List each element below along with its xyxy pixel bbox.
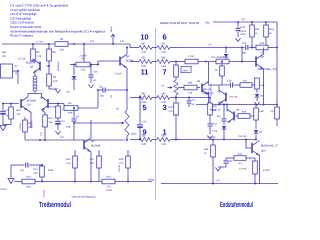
input connector X3 [1,51,20,84]
wire mid net [25,136,128,141]
diode D3 [229,94,264,101]
transistor Q8 BDY58 [256,48,278,72]
right +V rail [213,18,277,23]
resistor R22 [215,61,224,86]
resistor R23 [256,42,277,55]
wire Q8 branch [241,48,243,62]
resistor R41 [234,152,246,165]
svg-text:11: 11 [141,68,149,77]
svg-text:13mA: 13mA [263,169,270,172]
note optionale [72,195,97,198]
svg-text:BC557B: BC557B [26,62,36,65]
svg-text:777: 777 [216,180,221,183]
svg-text:Masse: Masse [43,189,46,197]
svg-text:BC546B: BC546B [91,145,101,148]
svg-text:1N4148: 1N4148 [229,96,238,99]
wire net4 right [180,139,256,141]
svg-text:7,0mA: 7,0mA [114,73,122,76]
svg-text:0.05: 0.05 [141,51,146,54]
svg-text:50µ: 50µ [66,91,71,94]
svg-text:3,2k: 3,2k [81,69,86,72]
svg-text:Modell 1N4148 AKO: 1N4148: Modell 1N4148 AKO: 1N4148 [160,21,199,25]
node 9 [142,128,146,137]
diff pair emitters [28,110,34,128]
wire verticals [0,0,1,1]
svg-text:2,2k: 2,2k [188,92,193,95]
svg-text:575: 575 [120,40,125,43]
resistor R19 [118,150,130,182]
svg-text:620n: 620n [241,33,247,36]
capacitor C7 [0,104,9,125]
svg-text:0,7mA: 0,7mA [37,40,44,43]
resistor R24 [185,55,216,68]
wire Q3 base [0,0,1,1]
resistor R15 [66,150,77,182]
transistor Q10 BDW46 [252,141,279,156]
net wire 11-7 with 0.05 ohm resistors [130,56,180,68]
svg-text:BC550: BC550 [126,60,134,63]
right edge rail [276,22,278,106]
svg-text:Vcc: Vcc [205,21,210,25]
wire diff base right [48,103,64,109]
net wire 10-6 with 0.05 ohm resistors [130,42,180,54]
svg-text:C30: C30 [228,160,233,163]
ground [235,38,240,41]
svg-text:4,3mA: 4,3mA [239,30,247,33]
capacitor C15 [131,97,147,141]
ground [215,168,220,171]
capacitor C16 [242,42,256,55]
capacitor C10 [89,64,99,84]
net flag Vneg [148,178,154,181]
resistor R40 [174,62,191,81]
svg-text:Treibermodul: Treibermodul [39,200,71,209]
svg-text:6: 6 [162,33,166,42]
capacitor C30 [218,158,233,167]
svg-text:R23: R23 [260,42,265,45]
net label Endstufe [57,61,60,71]
resistor R6 [70,54,98,71]
net label 111 [110,94,113,98]
diode D1 [66,64,76,94]
svg-text:C19: C19 [227,80,232,83]
svg-text:587: 587 [141,42,146,45]
current label 4,7mA [18,58,26,61]
resistor R32 [264,22,275,49]
svg-text:68n Q7: 68n Q7 [203,88,212,91]
svg-text:C31: C31 [213,123,218,126]
node 7 [162,68,166,77]
module separator line [155,28,157,200]
svg-text:R26: R26 [242,110,247,113]
transistor Q6 BD139 [197,62,213,105]
squiggle emitter wire [33,76,37,94]
resistor R26 [234,110,257,118]
svg-text:Endstufenmodul: Endstufenmodul [220,200,253,209]
svg-text:270: 270 [119,162,124,165]
svg-text:0.05: 0.05 [141,143,146,146]
svg-text:0.05: 0.05 [161,143,166,146]
diode D4 [207,126,226,141]
wire net3 right [180,97,210,99]
resistor R35 zobel [208,97,218,124]
svg-text:100: 100 [90,162,95,165]
resistor R2 [31,44,42,62]
wire Q10 base [246,140,252,149]
svg-text:1 mA: 1 mA [188,55,194,58]
net label 777 [40,131,43,136]
capacitor C31 [208,123,218,135]
node 6 [162,33,166,42]
diode D5 [238,130,263,141]
current 13mA [263,169,270,172]
svg-text:Endstufe: Endstufe [57,61,60,71]
svg-text:0,1µ: 0,1µ [213,130,218,133]
resistor R18 [102,175,115,192]
svg-text:10: 10 [140,33,148,42]
ground [254,102,259,105]
transistor Q9 BC547 [210,109,240,123]
right bottom rail [161,180,278,184]
svg-text:1mA: 1mA [48,169,54,172]
svg-text:4,7mA: 4,7mA [18,58,26,61]
svg-text:3: 3 [162,103,166,112]
svg-text:777: 777 [40,131,43,136]
net flag Vneg diamond [0,179,14,192]
svg-text:R21: R21 [243,80,248,83]
resistor R34 [255,78,260,93]
svg-text:Q10: Q10 [261,150,266,153]
model note [160,21,199,25]
ground [0,126,6,131]
svg-text:R17: R17 [90,158,95,161]
wire Q10 emitter [258,155,261,184]
svg-text:Vneg: Vneg [148,178,154,181]
svg-text:BC546B: BC546B [27,100,37,103]
wire net2 right [175,61,185,63]
transistor Q1 BC546B [21,97,36,110]
wire q7 [218,85,220,106]
resistor R10 [3,104,22,125]
svg-text:9: 9 [142,128,146,137]
svg-text:R15: R15 [66,158,71,161]
svg-text:6,8p: 6,8p [66,126,71,129]
svg-text:R18: R18 [106,175,111,178]
wire out bus [196,104,277,106]
wire net 147 [0,0,1,1]
caption Treibermodul [39,200,71,209]
svg-text:737: 737 [208,44,213,47]
svg-text:BDW46_T: BDW46_T [261,145,279,148]
resistor R1 [19,117,33,140]
resistor R30 [178,81,200,94]
svg-text:1: 1 [162,128,166,137]
svg-text:R41: R41 [238,152,243,155]
capacitor C4 [55,120,65,130]
ground [88,85,93,88]
capacitor C8 [99,85,128,97]
svg-text:C16: C16 [242,42,247,45]
svg-text:470: 470 [169,110,174,113]
svg-text:747: 747 [241,18,246,21]
transistor Q2 BC546B [40,97,59,111]
svg-text:7: 7 [162,68,166,77]
svg-text:0.05: 0.05 [161,51,166,54]
wire net1 right [180,47,245,49]
svg-text:R16: R16 [26,175,31,178]
svg-text:552: 552 [141,92,146,95]
svg-text:5: 5 [142,103,146,112]
svg-text:R14: R14 [34,168,39,171]
svg-text:220: 220 [34,172,39,175]
svg-text:1,8k: 1,8k [259,110,264,113]
potentiometer X2 [116,90,129,140]
svg-text:2,0mA: 2,0mA [79,54,87,57]
node 11 [141,68,149,77]
resistor R28 [204,140,215,185]
resistor R21 [240,80,265,88]
svg-text:R11: R11 [49,117,54,120]
wire Q10 collector [0,0,1,1]
net flag Vpre [110,26,115,44]
svg-text:R25: R25 [220,56,225,59]
svg-text:Cma: Cma [269,28,275,31]
svg-text:046: 046 [161,92,166,95]
bottom rail [42,181,152,183]
current label 0,7mA [37,40,44,43]
svg-text:4,5mA: 4,5mA [239,168,247,171]
svg-text:R31: R31 [255,28,260,31]
svg-text:500µ: 500µ [131,133,137,136]
wire Q8 emitter [263,69,265,106]
net label Masse [43,189,46,197]
svg-text:3,3k: 3,3k [260,84,265,87]
svg-text:C17: C17 [192,99,197,102]
diode D2 [211,48,228,63]
capacitor C21 [217,105,227,126]
svg-text:2,4mA: 2,4mA [118,165,121,172]
svg-text:1N4148: 1N4148 [207,136,216,139]
svg-text:R10: R10 [17,109,22,112]
wire Q4 base [97,61,120,66]
svg-text:1N4148: 1N4148 [238,135,247,138]
resistor R36 [239,158,257,185]
resistor R14 [34,164,54,183]
resistor R39 [169,103,179,140]
wire L-drop [0,0,1,1]
left +V rail [2,40,130,48]
svg-text:R19: R19 [119,158,124,161]
wire bottom left [11,164,42,166]
capacitor C17 [187,98,197,108]
node 1 [162,128,166,137]
svg-text:R30: R30 [188,81,193,84]
svg-text:47µ: 47µ [20,169,25,172]
svg-text:100k: 100k [67,112,73,115]
capacitor C6 [20,163,28,172]
wire C8 net [98,89,103,91]
resistor R3 [47,44,57,67]
svg-text:BC557-25: BC557-25 [203,92,214,95]
svg-text:7,0mA: 7,0mA [105,189,113,192]
svg-text:580: 580 [161,56,166,59]
svg-text:41µ: 41µ [217,115,222,118]
resistor R27 [254,105,265,130]
resistor R31 [239,22,260,49]
wire Q3 [90,120,93,182]
resistor R38 [270,105,279,127]
svg-text:574: 574 [90,40,95,43]
resistor R17 [90,150,101,182]
svg-text:1N4148: 1N4148 [211,56,220,59]
svg-text:2,2k: 2,2k [37,55,42,58]
svg-text:0,9mA: 0,9mA [0,188,7,191]
svg-text:56Ω: 56Ω [26,186,31,189]
svg-text:BDY58_Tu: BDY58_Tu [258,68,278,71]
net wire 5-3 with 0.05 ohm resistors [130,92,180,104]
svg-text:R39: R39 [169,106,174,109]
resistor R4 [47,66,59,89]
wire [0,0,1,1]
svg-text:BC547-25: BC547-25 [210,109,221,112]
svg-text:2,2k: 2,2k [66,162,71,165]
diff pair top [28,94,42,98]
wire y158 [226,157,255,159]
wire rail to R6 [83,44,85,65]
ground [55,131,60,134]
wire [10,165,12,178]
svg-text:103: 103 [2,55,7,58]
net wire 9-1 with 0.05 ohm resistors [130,134,180,146]
svg-text:68p: 68p [242,51,247,54]
svg-text:052: 052 [141,56,146,59]
svg-text:0,0mA: 0,0mA [19,123,22,130]
node 5 [142,103,146,112]
capacitor C19 [227,80,240,88]
capacitor C34 [236,22,247,37]
svg-text:Vpre: Vpre [110,26,113,32]
diff pair apex [0,0,1,1]
resistor R25 [216,56,256,64]
resistor R12 [56,104,67,121]
resistor R5 [55,38,68,52]
wire q9 [226,104,228,112]
transistor Q5 BC557B [26,59,40,76]
svg-text:C34: C34 [241,26,246,29]
svg-text:R28: R28 [204,148,209,151]
resistor R9 [64,102,98,115]
node 3 [162,103,166,112]
svg-text:001: 001 [161,42,166,45]
svg-text:C10: C10 [93,71,98,74]
notes text block [10,4,105,38]
svg-text:C15: C15 [142,121,147,124]
caption Endstufenmodul [220,200,253,209]
svg-text:2mA: 2mA [183,69,188,72]
transistor Q3 BC546B [84,139,101,152]
svg-text:56p: 56p [100,95,105,98]
wire diff base left [2,103,19,105]
capacitor C9 [66,107,80,140]
transistor Q4 BC550B [114,47,134,91]
resistor R16 [15,175,43,188]
net label 737 [208,44,213,47]
svg-text:101: 101 [60,136,65,139]
svg-text:8,2k: 8,2k [53,80,58,83]
svg-text:3,3k: 3,3k [59,49,64,52]
svg-text:optionale pinbelegung b: optionale pinbelegung b [72,195,97,198]
wire feedback to X2 wiper [73,122,120,124]
ground [207,136,212,139]
wire vert 98 [97,89,99,108]
transistor Q7 BC557 [203,88,226,104]
ground [55,90,60,93]
wire upper [0,0,1,1]
resistor R11 [42,110,54,141]
potentiometer X1 [161,80,178,141]
node 10 [140,33,148,42]
label Vcc [205,21,210,25]
svg-text:R9 nach C7 angepasst: R9 nach C7 angepasst [10,34,33,38]
wire C19 net [208,84,230,86]
